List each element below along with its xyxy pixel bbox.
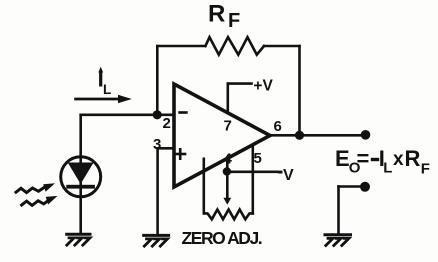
wire feedback left vertical	[156, 46, 159, 115]
label EO equation	[335, 146, 430, 178]
photodiode D1 anode triangle	[68, 163, 94, 185]
wire pin3 stub	[158, 147, 174, 150]
op-amp minus sign pin2	[180, 111, 187, 114]
label -V	[278, 167, 294, 184]
wire -V horizontal	[227, 171, 277, 174]
svg-text:V: V	[283, 167, 294, 184]
wire pin7 to +V	[227, 84, 230, 113]
svg-text:L: L	[103, 82, 111, 97]
wire input horizontal	[81, 114, 174, 117]
potentiometer zero-adjust	[205, 210, 253, 220]
wire output horizontal	[270, 134, 362, 137]
label IL	[98, 67, 111, 97]
wire pin1 vertical	[203, 159, 206, 214]
svg-text:L: L	[383, 160, 392, 177]
svg-text:+V: +V	[253, 77, 273, 94]
photodiode D1 cathode bar	[66, 185, 95, 189]
svg-text:x: x	[393, 149, 404, 170]
arrow IL current direction	[76, 98, 120, 101]
svg-text:E: E	[335, 146, 350, 171]
svg-text:2: 2	[163, 115, 171, 132]
svg-text:ZERO ADJ.: ZERO ADJ.	[182, 228, 262, 248]
wire feedback top-right segment	[264, 45, 300, 48]
node ground terminal	[360, 182, 370, 192]
svg-text:F: F	[421, 161, 430, 178]
svg-text:6: 6	[274, 118, 282, 135]
svg-text:7: 7	[224, 118, 232, 135]
wire pin5 vertical	[252, 145, 255, 214]
svg-text:=: =	[357, 146, 370, 171]
svg-text:R: R	[405, 146, 421, 171]
wire feedback top-left segment	[157, 45, 205, 48]
svg-text:R: R	[208, 1, 225, 28]
ground photodiode	[67, 234, 90, 245]
node -V junction	[223, 167, 231, 175]
wire pin3 to ground vertical	[156, 148, 159, 234]
light arrow upper	[16, 183, 55, 192]
wire feedback right vertical	[298, 46, 301, 135]
svg-text:5: 5	[254, 150, 262, 167]
light arrow lower	[22, 196, 58, 206]
wiper arrowhead	[223, 198, 231, 205]
wire terminal to ground	[339, 185, 366, 188]
resistor RF	[205, 37, 264, 55]
label RF	[208, 1, 240, 33]
photodiode D1 circle	[61, 157, 101, 197]
node pin2 junction	[153, 110, 162, 119]
ground pin3	[144, 235, 169, 246]
wire photodiode vertical	[79, 115, 82, 234]
node output junction	[295, 131, 304, 140]
ground output	[325, 235, 351, 246]
op-amp plus sign pin3	[176, 153, 186, 156]
op-amp U1 triangle	[174, 84, 270, 187]
node output terminal	[361, 130, 371, 140]
svg-text:F: F	[228, 10, 240, 32]
wire pin4 and wiper shaft	[226, 158, 229, 198]
